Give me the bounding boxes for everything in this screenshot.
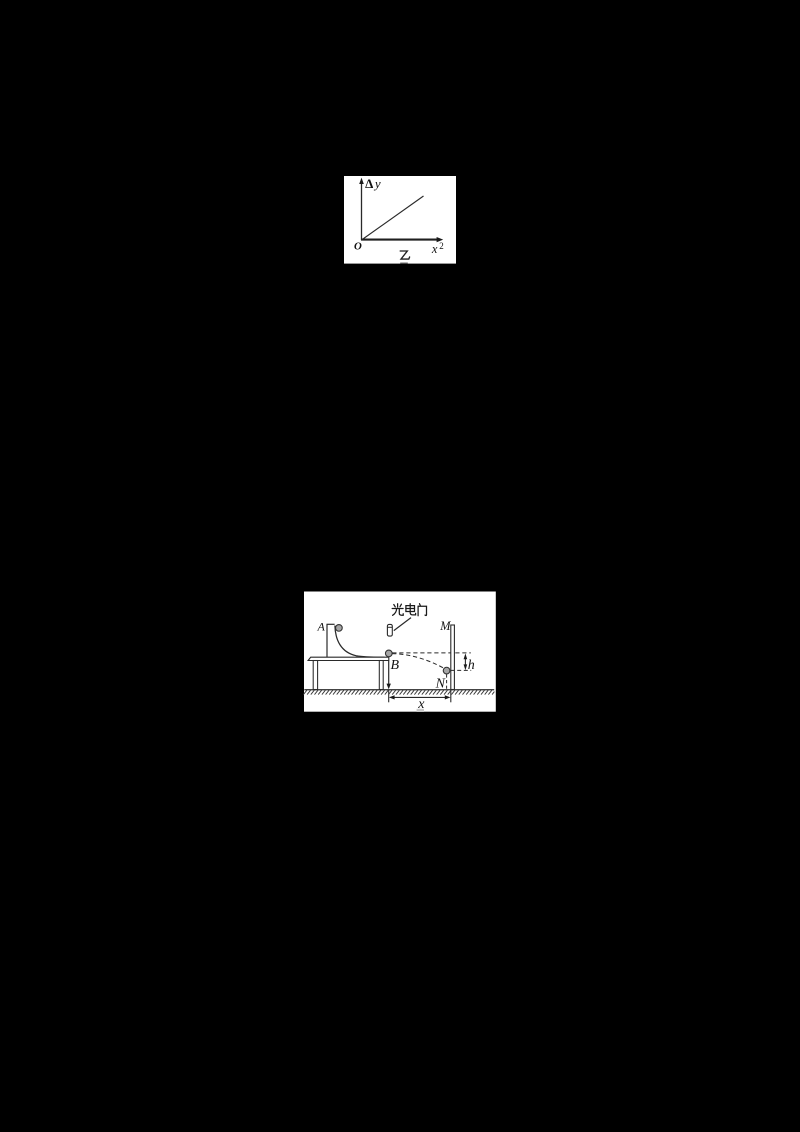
ball N bbox=[443, 667, 450, 674]
ground line bbox=[304, 689, 494, 691]
x dimension right arrowhead bbox=[445, 695, 451, 699]
x dimension left arrowhead bbox=[389, 695, 395, 699]
h dimension line bbox=[464, 656, 466, 668]
dashed vertical below N bbox=[446, 674, 448, 689]
table top bbox=[308, 657, 389, 660]
svg-text:y: y bbox=[373, 176, 381, 191]
ball B bbox=[385, 650, 392, 657]
x dimension line bbox=[392, 696, 449, 698]
ball A bbox=[336, 625, 343, 632]
h arrowhead down bbox=[464, 664, 468, 670]
label guangdianmen (Chinese 光电门 photogate) bbox=[392, 604, 426, 616]
dashed trajectory B to N bbox=[392, 654, 445, 669]
data line (diagonal) bbox=[362, 196, 424, 240]
figure 2 white panel (experiment) bbox=[304, 592, 496, 712]
x-axis bbox=[361, 239, 439, 241]
drop line arrowhead bbox=[387, 684, 391, 690]
y-axis bbox=[361, 183, 363, 241]
dashed level line at N bbox=[451, 669, 472, 671]
drop line below B bbox=[388, 661, 390, 685]
ramp post bbox=[326, 624, 328, 657]
cropped glyph sliver at panel bottom bbox=[400, 263, 408, 264]
x-measure left boundary below ground bbox=[388, 690, 390, 703]
ramp post top bar bbox=[327, 623, 335, 625]
svg-text:h: h bbox=[468, 658, 475, 673]
svg-text:B: B bbox=[391, 658, 400, 673]
x-measure right boundary below ground bbox=[450, 690, 452, 703]
faint artifact below x label bbox=[417, 709, 424, 712]
wall M bbox=[451, 625, 455, 690]
dashed level line from B bbox=[392, 652, 471, 654]
label yi (Chinese 乙) bbox=[400, 251, 409, 259]
photogate cylinder bbox=[387, 624, 392, 636]
x-axis arrowhead bbox=[437, 237, 444, 242]
h arrowhead up bbox=[464, 653, 468, 659]
table left leg bbox=[313, 661, 317, 690]
svg-text:A: A bbox=[317, 620, 326, 634]
svg-text:x: x bbox=[431, 242, 438, 256]
svg-text:Δ: Δ bbox=[365, 176, 373, 191]
leader line from label to photogate bbox=[394, 618, 411, 631]
svg-text:2: 2 bbox=[439, 241, 444, 251]
photogate rim bbox=[388, 626, 393, 628]
svg-text:O: O bbox=[354, 240, 362, 252]
table right leg bbox=[379, 661, 383, 690]
ramp curve bbox=[335, 626, 385, 658]
svg-text:M: M bbox=[439, 619, 451, 633]
figure 1 white panel (graph) bbox=[344, 176, 456, 264]
ground hatching bbox=[303, 690, 494, 694]
y-axis arrowhead bbox=[359, 178, 364, 184]
